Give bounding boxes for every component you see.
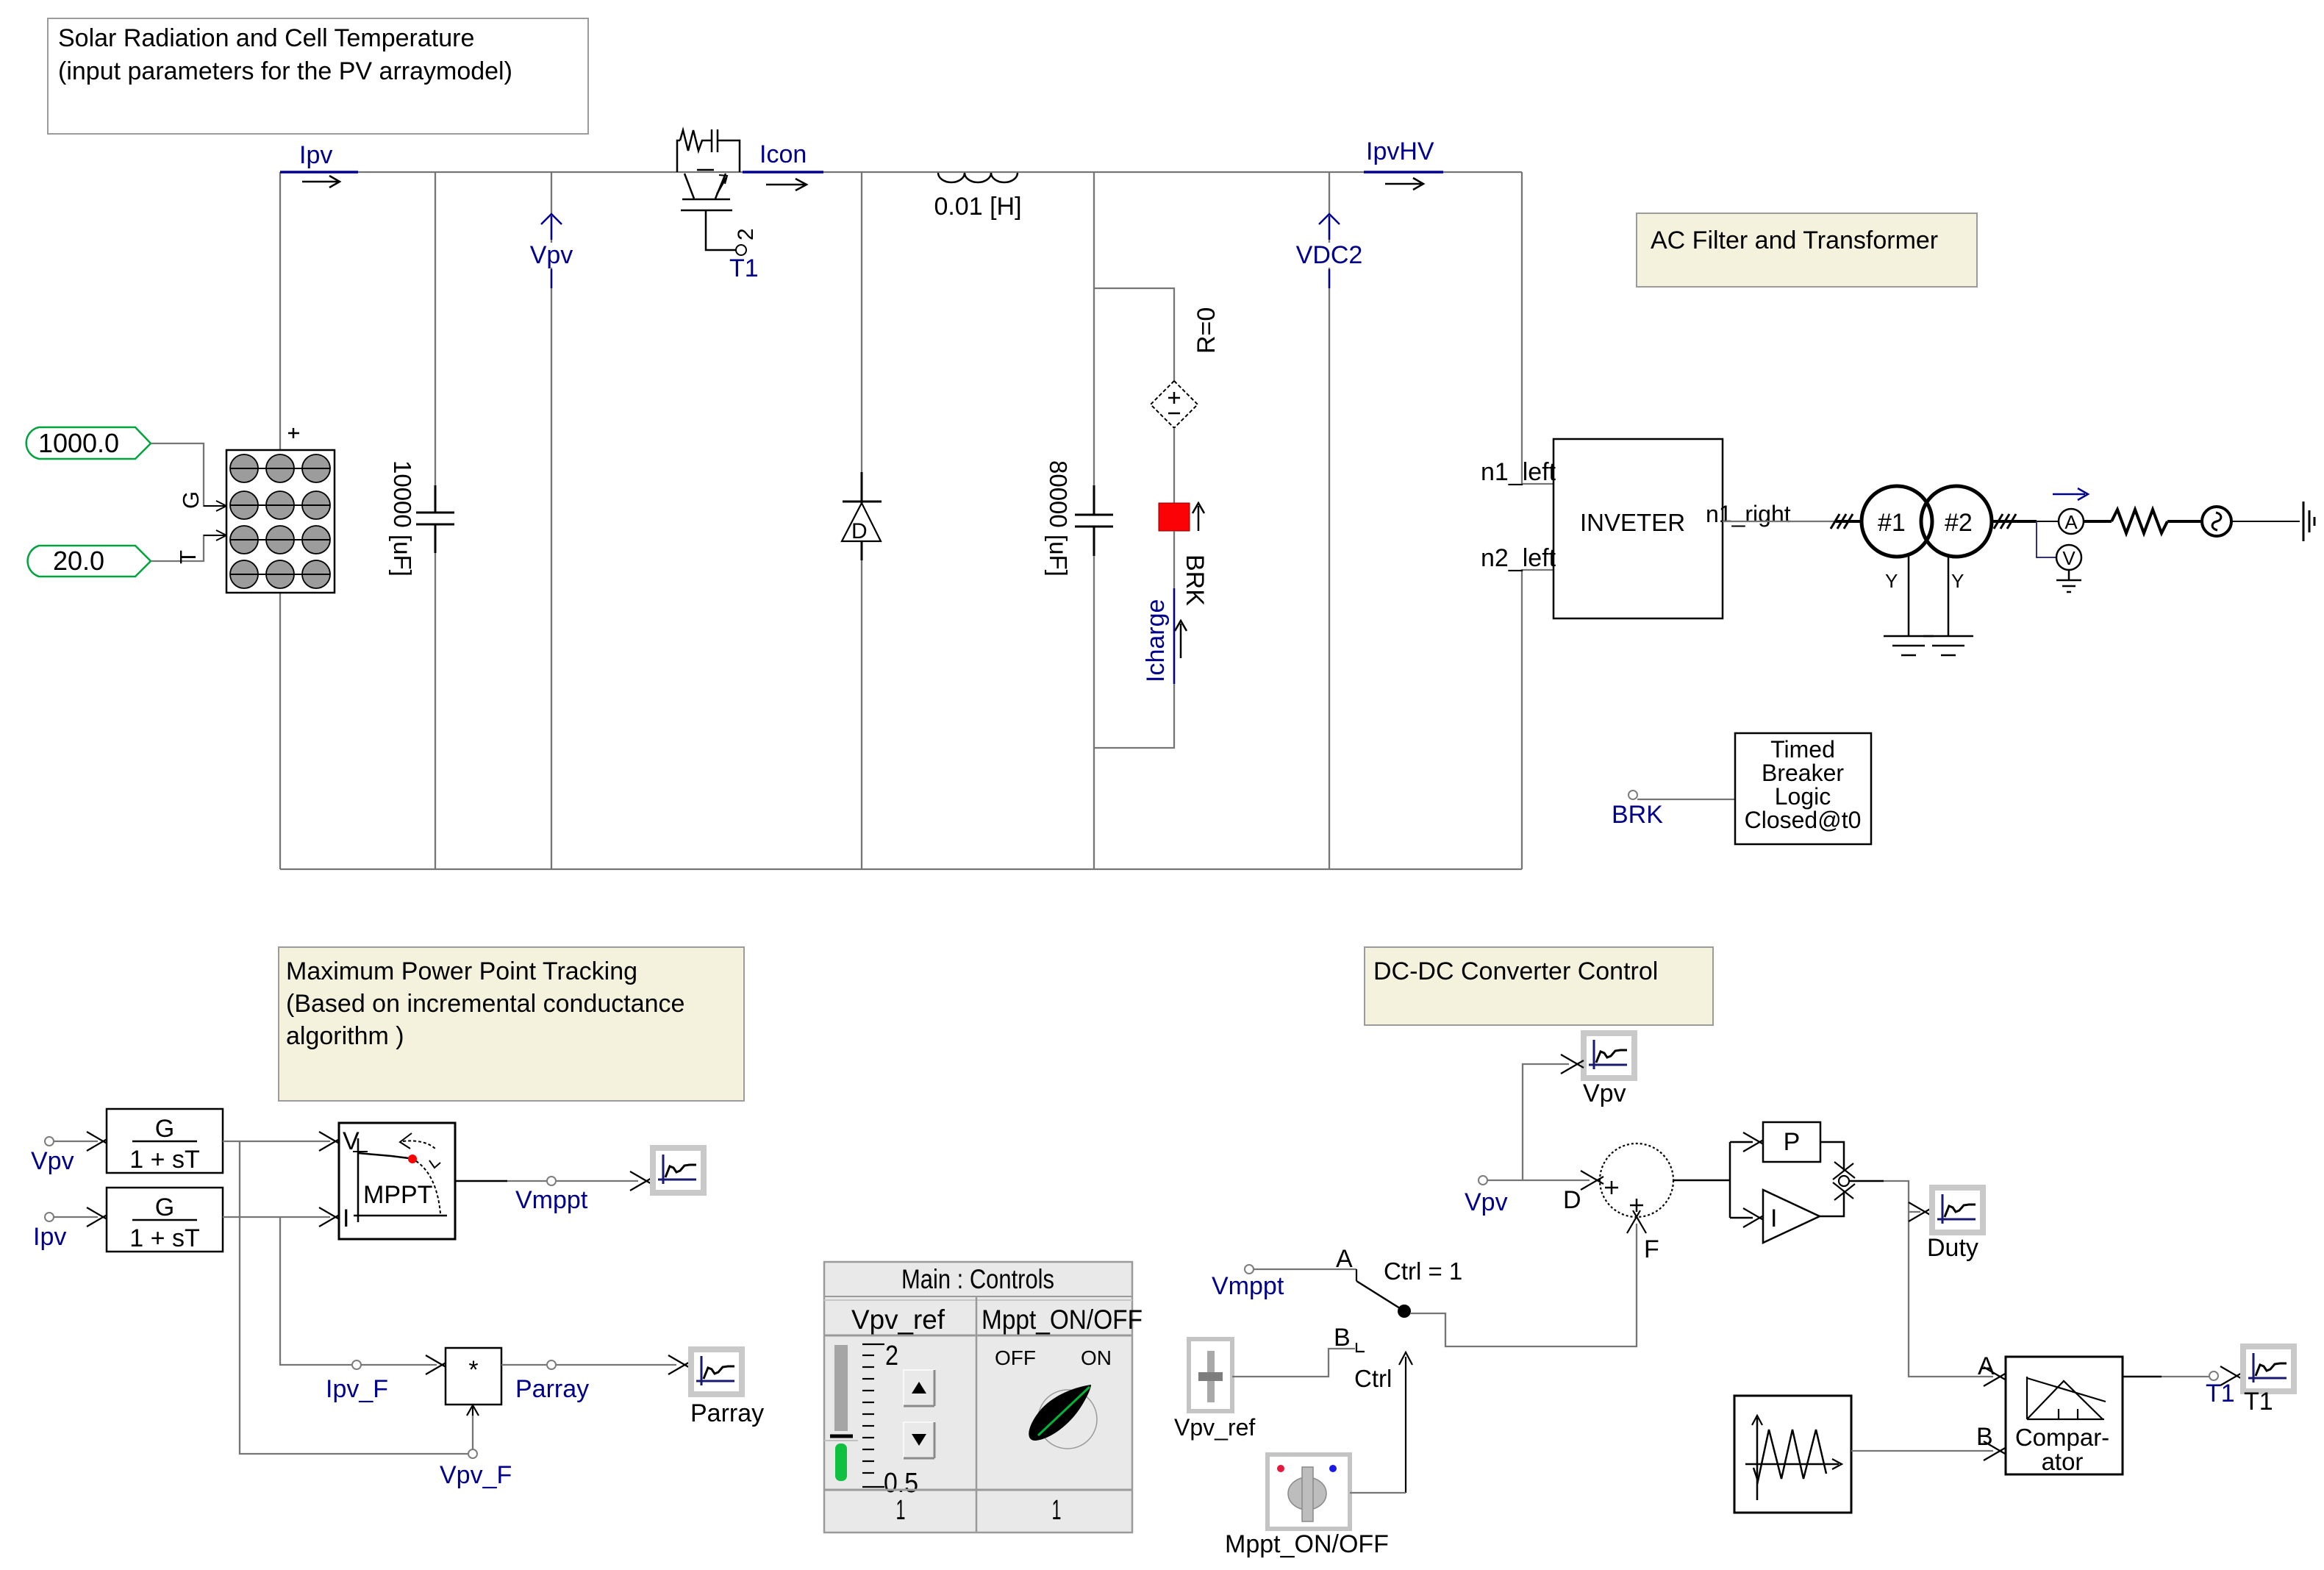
- svg-text:Closed@t0: Closed@t0: [1745, 807, 1862, 833]
- svg-text:T1: T1: [729, 254, 759, 282]
- dependent source R=0 / BRK branch x=1597: [1094, 288, 1220, 748]
- wire: bottom DC bus: [280, 868, 1522, 870]
- svg-text:1 + sT: 1 + sT: [129, 1146, 199, 1174]
- plot icon Vmppt: [650, 1145, 707, 1196]
- svg-text:Breaker: Breaker: [1762, 760, 1844, 786]
- svg-text:B: B: [1976, 1423, 1993, 1451]
- wire: block1 tap down to Vpv_F: [240, 1141, 468, 1454]
- voltmeter arrow Vpv on x=750: [525, 172, 578, 869]
- load resistor: [2084, 510, 2202, 533]
- down button: [904, 1422, 934, 1458]
- wire: block2 to MPPT I input: [223, 1216, 330, 1218]
- svg-text:Maximum Power Point Tracking: Maximum Power Point Tracking: [286, 957, 637, 985]
- wire: 1000.0 to PV G input: [151, 443, 218, 506]
- svg-text:80000 [uF]: 80000 [uF]: [1045, 460, 1072, 577]
- node Ipv (blue overlay + label + arrow): [280, 141, 358, 188]
- ground (right, rotated): [2303, 502, 2314, 541]
- wire: dial to Ctrl arrow: [1350, 1492, 1406, 1494]
- wire: inverter n2 return to bottom bus: [1522, 570, 1553, 869]
- svg-text:G: G: [178, 491, 204, 509]
- svg-text:Vpv_ref: Vpv_ref: [851, 1305, 945, 1335]
- svg-text:I: I: [343, 1205, 349, 1232]
- PI outputs join at node: [1820, 1142, 1844, 1171]
- arrow into G: [216, 501, 226, 511]
- wire: inverter to transformer: [1723, 521, 1836, 522]
- wire: Vpv_ref to switch B: [1232, 1349, 1355, 1377]
- svg-text:n1_right: n1_right: [1706, 501, 1791, 527]
- node pin Vpv: [1479, 1176, 1487, 1185]
- svg-text:Y: Y: [1885, 570, 1898, 592]
- svg-text:2: 2: [885, 1341, 898, 1371]
- lag block G/(1+sT) #2: [107, 1188, 223, 1252]
- svg-text:Vpv_F: Vpv_F: [440, 1461, 512, 1489]
- breaker BRK (red square): [1159, 503, 1190, 531]
- slider icon Vpv_ref: [1174, 1339, 1255, 1441]
- voltmeter arrow VDC2 on x=1808: [1290, 172, 1368, 869]
- svg-text:T1: T1: [2244, 1388, 2273, 1416]
- wire: multiplier to Parray plot: [501, 1364, 676, 1366]
- svg-text:1000.0: 1000.0: [38, 428, 119, 458]
- svg-text:20.0: 20.0: [53, 546, 104, 576]
- comparator block: [1976, 1352, 2123, 1475]
- wire: block1 to MPPT V input: [223, 1141, 330, 1142]
- svg-text:V: V: [2062, 547, 2075, 569]
- svg-text:Vpv: Vpv: [530, 241, 573, 269]
- svg-text:Logic: Logic: [1775, 783, 1831, 810]
- svg-text:Mppt_ON/OFF: Mppt_ON/OFF: [1225, 1530, 1389, 1558]
- Icharge blue label + arrow: [1173, 588, 1176, 684]
- voltmeter V with ground: [2037, 521, 2081, 592]
- wire: 20.0 to PV T input: [151, 535, 218, 561]
- svg-text:Icon: Icon: [759, 140, 807, 168]
- svg-text:B: B: [1334, 1324, 1351, 1352]
- I block (integrator triangle): [1730, 1217, 1753, 1219]
- svg-text:AC Filter and Transformer: AC Filter and Transformer: [1651, 226, 1938, 254]
- svg-text:Vpv: Vpv: [1583, 1080, 1626, 1107]
- svg-text:algorithm ): algorithm ): [286, 1022, 404, 1050]
- svg-text:(Based on incremental conducta: (Based on incremental conductance: [286, 990, 684, 1018]
- input pin Vpv: [31, 1132, 110, 1175]
- PV array module: [226, 428, 335, 593]
- svg-text:R=0: R=0: [1193, 307, 1220, 354]
- snubber resistor zigzag: [680, 130, 707, 151]
- wire: block2 tap down to Ipv_F: [280, 1217, 352, 1365]
- multiplier block: [446, 1348, 501, 1405]
- node Icon (blue overlay + label + arrow): [743, 140, 823, 190]
- transformer star-point grounds: [1884, 555, 1973, 655]
- text box: DC-DC Converter Control: [1365, 947, 1713, 1025]
- svg-text:T: T: [175, 550, 201, 564]
- P block: [1730, 1141, 1753, 1143]
- input pin Ipv: [33, 1207, 110, 1251]
- svg-text:A: A: [2064, 511, 2078, 533]
- MPPT block: [339, 1123, 455, 1239]
- wire: PV array branch x=381: [279, 172, 281, 450]
- transformer T (two windings): [1831, 486, 2059, 592]
- lag block G/(1+sT) #1: [107, 1109, 223, 1174]
- svg-text:DC-DC Converter Control: DC-DC Converter Control: [1373, 957, 1658, 985]
- svg-text:Icharge: Icharge: [1142, 599, 1170, 682]
- svg-text:BRK: BRK: [1612, 801, 1663, 829]
- control panel Main : Controls: [824, 1262, 1143, 1532]
- AC source: [2202, 507, 2300, 536]
- capacitor C 10000uF branch x=592: [389, 172, 454, 869]
- svg-text:Parray: Parray: [690, 1399, 764, 1427]
- svg-text:ON: ON: [1081, 1346, 1112, 1369]
- svg-text:Duty: Duty: [1927, 1234, 1978, 1262]
- text box: AC Filter and Transformer: [1637, 213, 1977, 287]
- svg-text:#1: #1: [1878, 509, 1906, 537]
- two-position switch: [1254, 1245, 1411, 1352]
- svg-text:Vpv: Vpv: [31, 1147, 74, 1175]
- wire: summer output to PI: [1673, 1180, 1730, 1182]
- svg-text:(input parameters for the PV: (input parameters for the PV arraymodel): [58, 57, 512, 85]
- svg-text:0.5: 0.5: [884, 1468, 918, 1499]
- dial knob: [1038, 1390, 1097, 1449]
- wire: triangle wave to comparator B: [1851, 1450, 1993, 1452]
- node IpvHV (blue overlay + label + arrow): [1364, 138, 1443, 190]
- wire: top DC bus: [280, 171, 1522, 173]
- svg-text:Mppt_ON/OFF: Mppt_ON/OFF: [982, 1305, 1143, 1335]
- ammeter A: [2053, 488, 2088, 534]
- node pin Vmppt: [1245, 1265, 1254, 1274]
- IGBT body: [697, 169, 714, 171]
- wire: comparator output to T1 plot: [2123, 1376, 2162, 1378]
- input tag 20.0: [28, 546, 151, 577]
- svg-text:INVETER: INVETER: [1580, 509, 1685, 536]
- svg-text:Ctrl = 1: Ctrl = 1: [1384, 1257, 1462, 1285]
- svg-text:1: 1: [1052, 1495, 1062, 1526]
- svg-text:IpvHV: IpvHV: [1366, 138, 1434, 165]
- svg-text:1: 1: [896, 1495, 906, 1526]
- svg-text:MPPT: MPPT: [363, 1181, 432, 1209]
- wire: switch output to summer F input: [1410, 1224, 1637, 1346]
- summing junction D+F: [1563, 1143, 1673, 1263]
- svg-text:T1: T1: [2206, 1380, 2235, 1407]
- svg-text:Vpv: Vpv: [1465, 1188, 1508, 1216]
- svg-text:ator: ator: [2042, 1448, 2084, 1475]
- triangle wave generator: [1734, 1396, 1851, 1513]
- svg-text:Y: Y: [1951, 570, 1964, 592]
- timed breaker logic block: [1612, 733, 1871, 844]
- svg-text:Solar Radiation and Cell Tempe: Solar Radiation and Cell Temperature: [58, 24, 474, 52]
- svg-text:Vpv_ref: Vpv_ref: [1174, 1414, 1255, 1441]
- dial icon Mppt_ON/OFF: [1225, 1455, 1389, 1558]
- Ctrl input arrow: [1354, 1352, 1412, 1493]
- capacitor C 80000uF branch x=1488: [1045, 172, 1113, 869]
- svg-text:0.01 [H]: 0.01 [H]: [934, 193, 1021, 221]
- wire: MPPT output to Vmppt plot: [455, 1180, 507, 1182]
- inverter block U1: [1481, 439, 1791, 618]
- svg-text:10000 [uF]: 10000 [uF]: [389, 460, 416, 577]
- text box: Maximum Power Point Tracking: [279, 947, 744, 1101]
- arrow into T: [216, 530, 226, 540]
- svg-text:Main : Controls: Main : Controls: [901, 1264, 1054, 1294]
- svg-text:Vmppt: Vmppt: [515, 1186, 588, 1214]
- svg-text:n1_left: n1_left: [1481, 458, 1556, 486]
- svg-text:A: A: [1978, 1352, 1995, 1380]
- svg-text:OFF: OFF: [995, 1346, 1036, 1369]
- diode D branch x=1172: [842, 172, 882, 869]
- svg-text:Ipv_F: Ipv_F: [326, 1375, 388, 1403]
- svg-text:I: I: [1770, 1205, 1777, 1232]
- svg-text:BRK: BRK: [1181, 554, 1209, 606]
- wire: right bus drop to inverter n1: [1522, 172, 1553, 484]
- svg-text:P: P: [1784, 1128, 1801, 1156]
- svg-text:n2_left: n2_left: [1481, 544, 1556, 572]
- inductor L 0.01 H: [934, 173, 1021, 221]
- svg-text:D: D: [1563, 1186, 1581, 1214]
- svg-text:1 + sT: 1 + sT: [129, 1224, 199, 1252]
- slider scale ticks: [862, 1344, 884, 1487]
- svg-text:D: D: [851, 519, 868, 543]
- snubber capacitor: [711, 129, 713, 152]
- svg-text:Compar-: Compar-: [2015, 1424, 2109, 1451]
- plot icon Parray: [688, 1346, 745, 1397]
- svg-text:VDC2: VDC2: [1296, 241, 1363, 269]
- up button: [904, 1370, 934, 1406]
- gate lead: [706, 210, 736, 250]
- svg-text:Timed: Timed: [1770, 736, 1835, 763]
- plot icon Vpv (top): [1581, 1030, 1637, 1081]
- svg-text:G: G: [155, 1115, 174, 1143]
- svg-text:#2: #2: [1945, 509, 1973, 537]
- svg-text:F: F: [1644, 1235, 1659, 1263]
- svg-text:Ipv: Ipv: [299, 141, 332, 169]
- svg-text:Parray: Parray: [515, 1375, 589, 1403]
- svg-text:*: *: [468, 1356, 478, 1384]
- svg-text:A: A: [1336, 1245, 1353, 1273]
- svg-text:Ctrl: Ctrl: [1354, 1365, 1392, 1392]
- svg-text:Vmppt: Vmppt: [1212, 1272, 1284, 1300]
- text box: Solar Radiation and Cell Temperature: [48, 18, 588, 134]
- input tag 1000.0: [26, 427, 151, 459]
- wire: Vpv to summer and up to plot: [1487, 1180, 1590, 1181]
- wire: PI node to Duty plot and comparator A: [1849, 1180, 1884, 1182]
- svg-text:Ipv: Ipv: [33, 1223, 66, 1251]
- diamond voltage source: [1151, 381, 1198, 428]
- svg-text:2: 2: [734, 228, 758, 240]
- svg-text:G: G: [155, 1193, 174, 1221]
- value row: [824, 1489, 1132, 1491]
- slider widget: [834, 1345, 848, 1431]
- IGBT T1 with snubber: [677, 129, 759, 282]
